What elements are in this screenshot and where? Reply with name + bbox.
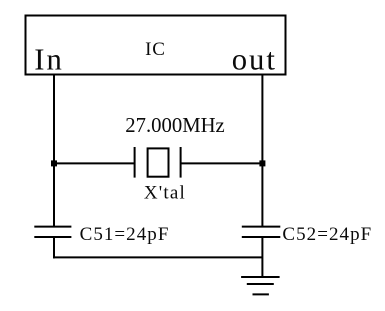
wire In pin down to node A	[53, 75, 55, 163]
wire crystal right plate to node B	[181, 162, 263, 164]
svg-text:out: out	[232, 43, 277, 77]
wire node A down to capacitor C51	[53, 163, 55, 226]
crystal X1 right plate	[180, 147, 182, 178]
wire node B down to capacitor C52	[261, 163, 263, 226]
svg-text:27.000MHz: 27.000MHz	[125, 115, 224, 137]
ground symbol bar 3	[253, 293, 269, 295]
capacitor C51 top plate	[34, 226, 71, 228]
ground symbol bar 1	[241, 276, 280, 278]
node B junction dot	[259, 160, 265, 166]
wire out pin down to node B	[261, 75, 263, 163]
capacitor C52 top plate	[242, 226, 280, 228]
svg-text:X'tal: X'tal	[144, 182, 186, 203]
wire node A to crystal left plate	[54, 162, 135, 164]
node A junction dot	[51, 160, 57, 166]
capacitor C52 bottom plate	[242, 236, 280, 238]
crystal X1 left plate	[134, 147, 136, 178]
wire capacitor C52 down to ground	[261, 237, 263, 277]
svg-text:C52=24pF: C52=24pF	[282, 224, 372, 245]
IC U1 box	[26, 16, 286, 75]
ground symbol bar 2	[247, 283, 274, 285]
wire capacitor C51 down to bottom rail	[53, 237, 55, 258]
svg-text:IC: IC	[145, 39, 166, 60]
capacitor C51 bottom plate	[34, 236, 71, 238]
crystal X1 body rectangle	[148, 148, 169, 176]
bottom rail wire to ground net	[53, 256, 262, 258]
svg-text:In: In	[34, 43, 64, 77]
svg-text:C51=24pF: C51=24pF	[80, 224, 170, 245]
